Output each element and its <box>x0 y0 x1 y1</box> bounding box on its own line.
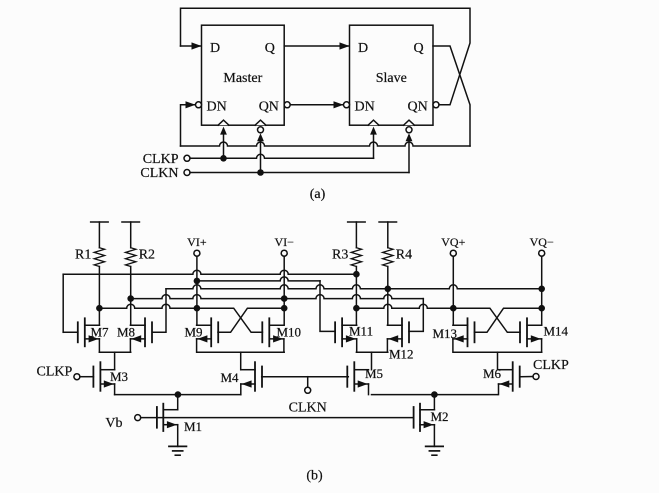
svg-text:CLKP: CLKP <box>37 365 73 380</box>
svg-text:VI−: VI− <box>274 235 294 249</box>
svg-text:CLKP: CLKP <box>533 358 569 373</box>
svg-text:R3: R3 <box>332 248 348 263</box>
svg-text:Q: Q <box>265 41 275 56</box>
svg-text:Slave: Slave <box>376 71 407 86</box>
svg-text:QN: QN <box>408 100 428 115</box>
svg-text:M14: M14 <box>544 324 569 339</box>
svg-text:CLKN: CLKN <box>140 166 178 181</box>
svg-text:D: D <box>358 41 368 56</box>
svg-text:Vb: Vb <box>105 416 122 431</box>
svg-text:Master: Master <box>223 71 262 86</box>
svg-text:M13: M13 <box>433 326 458 341</box>
svg-text:(a): (a) <box>310 187 326 202</box>
svg-text:R2: R2 <box>139 248 155 263</box>
svg-text:Q: Q <box>414 41 424 56</box>
svg-text:M2: M2 <box>431 409 449 424</box>
svg-text:M1: M1 <box>184 419 202 434</box>
svg-text:M4: M4 <box>221 370 240 385</box>
svg-text:M7: M7 <box>91 325 110 340</box>
svg-text:(b): (b) <box>306 469 323 484</box>
svg-text:R4: R4 <box>396 248 412 263</box>
svg-text:CLKP: CLKP <box>143 152 179 167</box>
svg-text:CLKN: CLKN <box>289 401 327 416</box>
svg-text:R1: R1 <box>75 248 91 263</box>
svg-text:DN: DN <box>207 100 227 115</box>
svg-text:M9: M9 <box>185 325 203 340</box>
svg-text:M12: M12 <box>389 346 414 361</box>
svg-text:VI+: VI+ <box>187 235 207 249</box>
svg-text:VQ+: VQ+ <box>441 235 465 249</box>
svg-text:M3: M3 <box>110 369 128 384</box>
svg-text:D: D <box>210 41 220 56</box>
svg-text:VQ−: VQ− <box>530 235 554 249</box>
svg-text:QN: QN <box>259 100 279 115</box>
svg-text:M6: M6 <box>483 366 502 381</box>
svg-text:M10: M10 <box>277 325 302 340</box>
svg-text:M5: M5 <box>365 366 383 381</box>
svg-text:DN: DN <box>355 100 375 115</box>
svg-text:M11: M11 <box>349 324 373 339</box>
svg-text:M8: M8 <box>117 325 135 340</box>
